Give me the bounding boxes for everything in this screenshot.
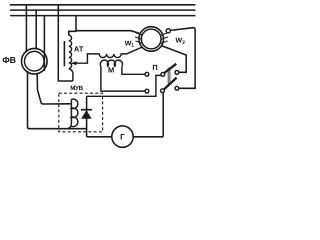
wire FV bottom left to MUV diode bottom xyxy=(28,71,87,129)
switch P lower pole pivot contact xyxy=(161,89,165,93)
svg-text:W2: W2 xyxy=(176,38,186,46)
autotransformer AT core xyxy=(63,41,65,66)
machine FV (phase shifter) xyxy=(22,48,48,74)
coil in W1 feed wire xyxy=(94,47,142,57)
diode VD wire xyxy=(86,96,88,137)
svg-text:Г: Г xyxy=(120,133,125,142)
wire bus line 1 xyxy=(10,4,196,6)
autotransformer AT winding xyxy=(69,35,73,81)
wire G right to switch lower pivot drop xyxy=(133,136,163,138)
wire diode top to switch upper pivot xyxy=(87,75,161,96)
MUV winding bumps xyxy=(71,99,77,127)
wire W2 to right drop and switch lower right contact xyxy=(170,28,195,89)
coil M (control winding) xyxy=(100,60,122,66)
brush terminal circle W2 xyxy=(166,29,170,33)
diode VD cathode bar xyxy=(81,109,92,111)
brush ticks right winding W2 xyxy=(160,33,168,43)
svg-text:W1: W1 xyxy=(125,40,135,48)
AT wiper arrow wire xyxy=(74,54,95,63)
brush ticks left winding W1 xyxy=(135,33,143,44)
svg-text:ФВ: ФВ xyxy=(2,55,15,65)
switch P upper lever xyxy=(164,64,177,74)
wire tap phase C to FV xyxy=(43,16,45,71)
wire tap phase C to AT top xyxy=(69,16,76,36)
switch P upper pole right contact xyxy=(175,71,179,75)
switch P upper pole left contact xyxy=(145,72,149,76)
wire tap phase A to FV xyxy=(25,5,27,52)
svg-text:АТ: АТ xyxy=(74,44,84,53)
switch P linkage double line xyxy=(167,68,169,85)
MUV working winding line xyxy=(64,99,71,128)
wire switch lower pivot down to G xyxy=(162,93,164,137)
machine (induction regulator) double circle xyxy=(139,27,164,52)
switch P upper pole pivot contact xyxy=(161,73,165,77)
wire machine lower right to switch upper right contact xyxy=(161,46,186,73)
wire tap to machine winding W1 xyxy=(76,31,139,34)
svg-text:МУВ: МУВ xyxy=(70,85,83,92)
svg-text:М: М xyxy=(108,66,114,75)
diode VD triangle xyxy=(81,110,92,119)
switch P lower pole left contact xyxy=(145,89,149,93)
svg-text:П: П xyxy=(152,63,157,72)
wire bus line 2 xyxy=(10,9,196,11)
galvanometer G circle xyxy=(112,126,133,147)
wire FV bottom right to MUV coil xyxy=(37,74,70,104)
wire tap phase A to AT bottom xyxy=(58,5,73,81)
wire tap phase B to FV xyxy=(35,10,37,49)
wire M left lead to switch left lower contact xyxy=(101,66,145,91)
wire bus line 3 xyxy=(10,15,196,17)
switch P lower pole right contact xyxy=(175,86,179,90)
MUV dashed box magnetic amplifier xyxy=(59,93,103,132)
wire diode bottom to G xyxy=(87,136,112,138)
switch P lower lever xyxy=(164,78,177,90)
wire M right lead to switch left upper contact xyxy=(122,66,145,74)
AT wiper arrowhead xyxy=(70,61,76,65)
